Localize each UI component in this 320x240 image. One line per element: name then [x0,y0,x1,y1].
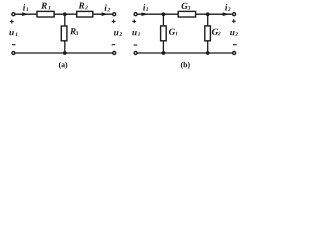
polarity minus b left [134,44,138,46]
label u2 a [114,31,122,36]
wire b G1 lower lead [162,41,164,53]
polarity plus b right [232,19,236,23]
resistor R1 [37,11,54,17]
wire a top-left segment [15,13,37,15]
label i2 b [225,4,230,11]
label i1 a [23,4,28,11]
resistor R3 [61,26,67,41]
wire a top-middle segment [54,13,77,15]
label i1 b [143,4,148,11]
node b top junction G2 [206,12,210,16]
polarity plus b left [132,20,136,24]
polarity plus a right [112,20,116,24]
terminal a output top [113,13,116,16]
wire b top-left segment [137,13,178,15]
label u1 b [132,31,140,36]
wire a R3 upper lead [64,14,66,26]
polarity minus a right [112,44,116,46]
node a bottom junction [63,51,67,55]
label G1 [169,29,177,36]
terminal b input top [134,13,137,16]
wire a top-right segment [93,13,113,15]
terminal a output bottom [113,52,116,55]
label i2 a [105,4,110,11]
node b bottom junction G2 [206,51,210,55]
caption (b) [181,62,190,69]
wire b G1 upper lead [162,14,164,26]
label R3 [70,28,78,35]
resistor G1 [161,26,167,41]
wire b top-right segment [196,13,233,15]
resistor G3 [178,11,195,17]
node a top junction [63,12,67,16]
label u1 a [9,31,17,36]
polarity minus b right [233,44,237,46]
label G3 [182,3,191,10]
arrow i2 a [102,13,107,16]
wire a R3 lower lead [64,41,66,53]
node b top junction G1 [162,12,166,16]
polarity plus a left [10,20,14,24]
terminal b input bottom [134,52,137,55]
terminal a input bottom [12,52,15,55]
arrow i1 a [23,13,28,16]
node b bottom junction G1 [162,51,166,55]
arrow i2 b [223,13,228,16]
resistor R2 [77,11,93,17]
terminal a input top [12,13,15,16]
arrow i1 b [142,13,147,16]
terminal b output top [233,13,236,16]
wire b G2 lower lead [207,41,209,53]
terminal b output bottom [233,52,236,55]
wire b bottom rail [137,52,232,54]
caption (a) [59,62,67,69]
resistor G2 [205,26,211,41]
label R1 [41,3,50,10]
wire a bottom rail [15,52,112,54]
polarity minus a left [12,44,16,46]
label R2 [79,2,88,9]
wire b G2 upper lead [207,14,209,26]
label u2 b [230,31,238,36]
label G2 [212,29,221,36]
